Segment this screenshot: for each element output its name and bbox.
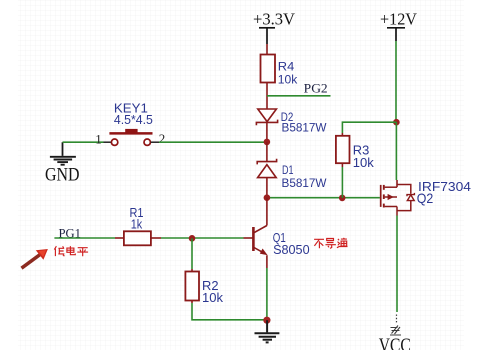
wire R1 to node D xyxy=(161,237,244,239)
diode D1 xyxy=(257,159,327,190)
transistor Q1 xyxy=(253,226,309,258)
resistor R1 xyxy=(115,206,161,245)
wire KEY1 pin2 to node A xyxy=(159,141,267,143)
pin D1 to node B xyxy=(266,178,268,198)
node C junction xyxy=(339,195,346,202)
power +12V xyxy=(380,10,417,41)
svg-text:GND: GND xyxy=(45,165,80,185)
diode D2 xyxy=(256,109,326,135)
node A junction xyxy=(264,139,271,146)
wire node E to R3 xyxy=(342,122,396,133)
wire emitter to ground node xyxy=(266,268,268,320)
ground center xyxy=(255,320,280,342)
pin emitter Q1 xyxy=(266,255,268,268)
resistor R3 xyxy=(336,136,375,170)
svg-text:Q2: Q2 xyxy=(417,191,434,206)
pin D2 to node xyxy=(266,122,268,141)
power +3.3V xyxy=(253,10,295,44)
mosfet Q2 xyxy=(381,179,471,216)
wire R2 to ground xyxy=(191,301,193,304)
ground node junction xyxy=(263,317,270,324)
wire node E to Q2 source xyxy=(395,122,397,180)
svg-text:R4: R4 xyxy=(278,60,295,74)
node D junction xyxy=(189,235,196,242)
wire GND to KEY1 pin1 xyxy=(63,141,104,143)
switch KEY1 xyxy=(109,101,153,145)
svg-text:B5817W: B5817W xyxy=(282,121,327,135)
wire Q2 drain to VCC xyxy=(396,216,398,313)
svg-text:+3.3V: +3.3V xyxy=(253,10,295,29)
svg-text:D1: D1 xyxy=(282,163,294,177)
pin 1 xyxy=(104,141,112,143)
svg-text:S8050: S8050 xyxy=(273,243,310,257)
pin base Q1 xyxy=(244,237,253,239)
resistor R4 xyxy=(261,55,299,87)
annotation red arrow xyxy=(22,249,48,268)
svg-text:B5817W: B5817W xyxy=(282,176,327,190)
wire +12V down xyxy=(395,41,397,122)
svg-text:+12V: +12V xyxy=(380,10,417,29)
ground GND xyxy=(45,142,80,185)
resistor R2 xyxy=(185,272,223,306)
wire node D to R2 xyxy=(191,238,193,269)
node PG1 xyxy=(54,226,115,240)
svg-text:1k: 1k xyxy=(131,217,143,231)
pin 2 xyxy=(151,141,159,143)
node E junction xyxy=(393,119,400,126)
node PG2 xyxy=(267,82,331,96)
annotation not-conducting (hand-drawn CJK) xyxy=(314,238,347,249)
body diode of Q2 xyxy=(407,193,414,196)
node B junction xyxy=(264,194,271,201)
power VCC xyxy=(379,315,411,350)
pin R4 to D2 xyxy=(266,83,268,110)
svg-text:10k: 10k xyxy=(353,156,375,170)
annotation low-level (hand-drawn CJK) xyxy=(54,246,88,256)
svg-text:10k: 10k xyxy=(278,73,298,87)
pin +3.3V to R4 xyxy=(266,44,268,55)
pin R3 to node C xyxy=(341,163,343,167)
svg-text:4.5*4.5: 4.5*4.5 xyxy=(114,113,153,127)
svg-text:VCC: VCC xyxy=(379,336,411,350)
svg-text:1: 1 xyxy=(95,132,102,147)
svg-text:10k: 10k xyxy=(202,291,224,305)
svg-text:PG2: PG2 xyxy=(304,82,328,96)
wire node B to Q2 gate xyxy=(267,197,380,199)
pin node A to D1 xyxy=(266,142,268,162)
svg-text:2: 2 xyxy=(159,131,166,146)
pin collector Q1 xyxy=(266,198,268,226)
